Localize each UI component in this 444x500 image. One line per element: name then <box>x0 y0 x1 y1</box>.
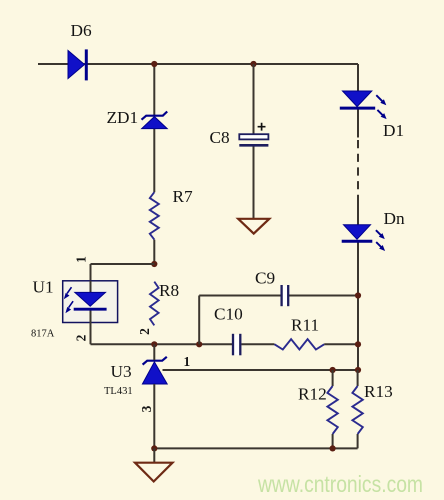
U1 internal wire <box>90 281 92 345</box>
svg-text:817A: 817A <box>31 329 55 340</box>
svg-text:2: 2 <box>137 328 152 335</box>
LED Dn <box>342 225 385 251</box>
shunt regulator U3 TL431 <box>142 357 167 384</box>
resistor R11 <box>275 339 325 349</box>
capacitor C9 <box>282 285 289 306</box>
wire ZD1 branch vertical x=154 <box>153 64 155 264</box>
svg-text:C10: C10 <box>214 305 243 324</box>
wire top rail from input to right rail <box>38 63 358 65</box>
svg-text:R12: R12 <box>298 385 327 404</box>
node junction R7/R8/U1 <box>151 261 157 267</box>
resistor R13 <box>352 370 362 448</box>
wire U3 anode down <box>153 384 155 448</box>
wire right rail upper <box>357 64 359 138</box>
svg-text:R13: R13 <box>364 382 393 401</box>
node junction rail R11 <box>355 341 361 347</box>
svg-text:1: 1 <box>74 256 89 263</box>
node junction rail C9 <box>355 292 361 298</box>
svg-text:D1: D1 <box>383 121 404 140</box>
wire U1 pin1 horizontal <box>91 264 155 281</box>
node junction R12 bottom <box>330 445 336 451</box>
capacitor C8 <box>239 123 268 146</box>
node junction R8 bottom <box>151 341 157 347</box>
svg-text:ZD1: ZD1 <box>107 108 139 127</box>
wire U3 pin1 (ref) <box>163 369 359 371</box>
optocoupler U1 box <box>63 281 118 323</box>
wire to Dn <box>357 202 359 370</box>
svg-text:U3: U3 <box>111 362 132 381</box>
svg-text:D6: D6 <box>71 21 92 40</box>
node junction R12 top <box>330 367 336 373</box>
svg-text:C8: C8 <box>210 128 230 147</box>
svg-text:Dn: Dn <box>384 209 405 228</box>
node junction rail pin1 <box>355 367 361 373</box>
wire U3 top stub <box>153 344 155 360</box>
svg-text:2: 2 <box>74 334 89 341</box>
resistor R7 <box>150 192 159 239</box>
resistor R12 <box>327 370 337 448</box>
node junction C9 branch <box>196 341 202 347</box>
svg-text:1: 1 <box>184 354 191 369</box>
svg-text:www.cntronics.com: www.cntronics.com <box>257 471 423 497</box>
wire C8 branch vertical <box>253 64 255 219</box>
zener ZD1 <box>142 112 168 129</box>
svg-text:C9: C9 <box>255 269 275 288</box>
svg-text:R7: R7 <box>173 187 194 206</box>
node junction dot top-left <box>151 61 157 67</box>
svg-text:3: 3 <box>139 405 154 412</box>
ground (C8) <box>238 219 269 234</box>
capacitor C10 <box>233 334 240 356</box>
LED D1 <box>340 91 387 119</box>
node junction dot top-C8 <box>250 61 256 67</box>
diode D6 <box>68 49 86 80</box>
U1 arrows <box>64 287 73 313</box>
node junction U3 anode/ground <box>151 445 157 451</box>
resistor R8 <box>150 282 159 326</box>
U1 LED <box>74 292 107 309</box>
ground (main) <box>135 463 173 482</box>
wire ground stub <box>153 448 155 462</box>
wire C9 branch <box>199 296 358 345</box>
svg-text:TL431: TL431 <box>104 386 133 397</box>
svg-text:R11: R11 <box>291 316 319 335</box>
svg-text:R8: R8 <box>159 281 179 300</box>
wire dashed LED string <box>357 140 359 202</box>
wire middle row y=344 <box>91 343 359 345</box>
wire bottom rail <box>154 447 357 449</box>
svg-text:U1: U1 <box>33 278 54 297</box>
